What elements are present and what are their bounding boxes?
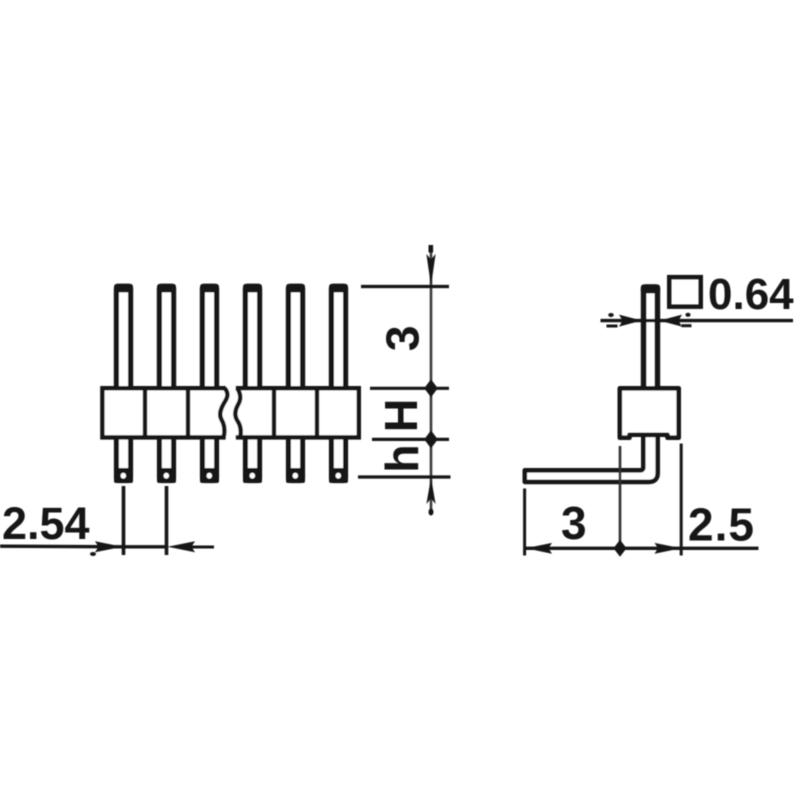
svg-text:0.64: 0.64: [708, 270, 794, 319]
svg-text:2.54: 2.54: [2, 498, 90, 549]
svg-text:3: 3: [376, 325, 428, 351]
svg-text:3: 3: [561, 497, 587, 549]
svg-text:H: H: [375, 399, 427, 433]
svg-text:2.5: 2.5: [688, 499, 755, 551]
svg-text:h: h: [376, 444, 428, 472]
